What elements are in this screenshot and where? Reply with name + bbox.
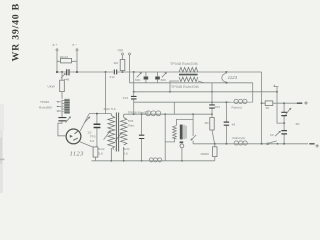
svg-text:Rohr 5,6: Rohr 5,6 bbox=[104, 107, 116, 111]
trimmer arrow 60C right bbox=[161, 72, 167, 82]
capacitor C3 grid bbox=[84, 113, 111, 147]
svg-text:+90: +90 bbox=[117, 49, 123, 53]
wire x193.1 drop bbox=[192, 114, 194, 136]
svg-text:1123: 1123 bbox=[70, 151, 85, 158]
svg-text:e −: e − bbox=[73, 43, 78, 47]
inductor L1 adjustable core bbox=[56, 99, 70, 114]
wire UKW column bbox=[61, 72, 63, 99]
node cap row right bbox=[76, 71, 78, 73]
transformer TR1 left winding bbox=[108, 114, 115, 161]
svg-text:60C: 60C bbox=[135, 78, 141, 82]
inductor L4 zigzag bottom bbox=[179, 77, 198, 82]
node rail F x261.6 bbox=[261, 143, 263, 145]
mixer coil zigzag bbox=[173, 126, 177, 139]
wire rail B bbox=[130, 82, 253, 84]
wire TR1 right top to cap column bbox=[124, 113, 141, 115]
jack stub above rail C bbox=[274, 85, 279, 92]
node rail C x212 bbox=[211, 91, 213, 93]
wire grid drop from rail A bbox=[105, 72, 107, 114]
node rail A x62 bbox=[61, 71, 63, 73]
node rail F x284.1 bbox=[283, 143, 285, 145]
terminal +90 left bbox=[117, 49, 124, 60]
svg-text:≠13: ≠13 bbox=[123, 96, 128, 100]
svg-text:60C: 60C bbox=[161, 78, 167, 82]
terminal +90 right bbox=[129, 53, 131, 55]
wire tube left lead bbox=[58, 121, 66, 136]
wire L1 to C2 bbox=[61, 113, 63, 118]
inductor L3 zigzag top bbox=[179, 67, 198, 72]
trimmer arrow 60C left bbox=[135, 72, 142, 82]
plus sign rail D bbox=[304, 101, 308, 105]
svg-text:5,6: 5,6 bbox=[98, 152, 103, 156]
svg-text:Rohr(s)U: Rohr(s)U bbox=[233, 136, 246, 140]
svg-text:1123: 1123 bbox=[228, 75, 238, 80]
wire rail y114.2 with choke L5 bbox=[140, 113, 212, 115]
resistor R4 60 bbox=[265, 101, 273, 110]
resistor R6 1M bbox=[204, 114, 214, 144]
node rail A x124 bbox=[122, 71, 124, 73]
column C5 cap (03) bbox=[209, 83, 220, 114]
node C6 bottom bbox=[283, 122, 285, 124]
mixer coil top wire bbox=[176, 119, 193, 125]
rail D end dash bbox=[297, 102, 303, 104]
wire x174.3 short vertical bbox=[173, 102, 175, 114]
node rail D x284.1 bbox=[283, 102, 285, 104]
wire rail A bbox=[77, 71, 262, 73]
node rail E x182 bbox=[181, 160, 183, 162]
svg-text:5,6: 5,6 bbox=[90, 139, 95, 143]
wire bypass left bbox=[277, 92, 284, 123]
capacitor C8 (13) bbox=[123, 72, 137, 102]
mixer coil right winding bbox=[184, 125, 186, 139]
wire L4 left drop bbox=[170, 81, 179, 92]
wire tube anode diagonal bbox=[80, 142, 94, 147]
svg-text:WR 39/40 B: WR 39/40 B bbox=[10, 3, 21, 62]
svg-text:1M: 1M bbox=[204, 121, 209, 125]
node rail C x133.7 bbox=[133, 91, 135, 93]
svg-text:TP040: TP040 bbox=[40, 100, 49, 104]
diode arrow bbox=[191, 135, 197, 144]
svg-text:TP3: TP3 bbox=[90, 135, 96, 139]
node rail E x141.6 bbox=[141, 160, 143, 162]
svg-text:1,2: 1,2 bbox=[113, 147, 118, 151]
svg-text:Rohr: Rohr bbox=[98, 147, 105, 151]
svg-text:Rohr20M: Rohr20M bbox=[39, 106, 52, 110]
terminal a+ bbox=[53, 43, 59, 59]
wire right vertical to cap row bbox=[76, 61, 78, 72]
node choke rail x226.4 bbox=[225, 101, 227, 103]
capacitor pad right dark bbox=[155, 72, 160, 83]
capacitor C9 (5) bbox=[224, 102, 236, 144]
capacitor pad left dark bbox=[144, 72, 149, 83]
svg-text:1M: 1M bbox=[114, 61, 119, 65]
node rail y114.2 x165.2 bbox=[164, 113, 166, 115]
capacitor C1 (48) bbox=[57, 69, 77, 81]
capacitor C12 series in rail A bbox=[110, 70, 118, 80]
choke L2 on rail E bbox=[149, 158, 162, 162]
wire R3 bottom bbox=[122, 71, 124, 73]
wire cap column x133.7 lower bbox=[133, 102, 135, 114]
wire rail C bbox=[134, 91, 277, 93]
mixer knob stem bbox=[181, 148, 183, 161]
wire choke rail y102.2 bbox=[134, 101, 231, 103]
tube filament U23 bbox=[222, 73, 238, 82]
node column x212 rail y114.2 bbox=[211, 113, 213, 115]
node rail F x213 bbox=[214, 143, 216, 145]
capacitor C4 bbox=[139, 114, 144, 161]
mixer coil core dark bbox=[180, 125, 183, 140]
node filament bottom bbox=[225, 82, 227, 84]
wire rail E bottom left bbox=[92, 160, 215, 162]
mixer core bottom bar bbox=[180, 141, 184, 143]
choke L6 bbox=[231, 99, 253, 109]
svg-text:UKW: UKW bbox=[48, 85, 55, 89]
arrow across TR1 right winding bbox=[115, 132, 122, 141]
wire left vertical to cap row bbox=[56, 61, 58, 72]
node cap row left bbox=[56, 71, 58, 73]
node V1 rail D bbox=[261, 102, 263, 104]
resistor R2 bbox=[93, 147, 98, 161]
node rail F x226.4 bbox=[225, 143, 227, 145]
terminal e- bbox=[73, 43, 79, 59]
svg-text:3Ω: 3Ω bbox=[295, 122, 300, 126]
svg-text:≠48: ≠48 bbox=[64, 77, 69, 81]
core bar L3/L4 bbox=[179, 74, 198, 76]
svg-text:TP048 Rohr20M: TP048 Rohr20M bbox=[171, 85, 199, 89]
resistor UKW bbox=[48, 80, 65, 91]
svg-text:≠5: ≠5 bbox=[232, 122, 236, 126]
wire V1 from rail A bbox=[261, 72, 263, 144]
plus sign rail F bbox=[315, 144, 318, 147]
scan edge artifact left bbox=[0, 130, 3, 193]
svg-text:a +: a + bbox=[53, 43, 58, 47]
tube V1 triode bbox=[66, 129, 81, 144]
node rail E x111 bbox=[110, 160, 112, 162]
svg-text:18x12: 18x12 bbox=[60, 55, 69, 59]
resistor R1 18x12 bbox=[60, 55, 72, 63]
node rail A x226.4 bbox=[225, 71, 227, 73]
svg-text:15000: 15000 bbox=[200, 152, 209, 156]
transformer TR1 core bbox=[116, 113, 118, 152]
node rail C x170 bbox=[169, 91, 171, 93]
mixer knob circle bbox=[180, 144, 184, 148]
transformer TR1 right winding bbox=[120, 114, 126, 161]
rail F end dash bbox=[309, 143, 314, 145]
svg-text:TP048 Rohr20M: TP048 Rohr20M bbox=[170, 62, 198, 66]
capacitor C2 bbox=[58, 116, 71, 122]
resistor R3 1M bbox=[114, 60, 125, 71]
wire R1 leads bbox=[57, 60, 77, 62]
svg-text:Rohr: Rohr bbox=[123, 147, 130, 151]
svg-text:≠03: ≠03 bbox=[215, 105, 220, 109]
wire tube grid diagonal bbox=[80, 114, 89, 131]
node rail A x133.7 bbox=[133, 71, 135, 73]
node rail E x123.7 bbox=[123, 160, 125, 162]
svg-text:≠0: ≠0 bbox=[270, 133, 274, 137]
node rail C x277 bbox=[276, 91, 278, 93]
mixer coil left drop bbox=[165, 114, 174, 161]
svg-text:≠12: ≠12 bbox=[110, 75, 115, 79]
svg-text:5,6: 5,6 bbox=[123, 152, 128, 156]
svg-text:Rohr: Rohr bbox=[128, 123, 135, 127]
wire V2 from rail B bbox=[252, 83, 254, 102]
node rail y114.2 x193.1 bbox=[192, 113, 194, 115]
switch on rail F bbox=[267, 141, 279, 145]
svg-text:Rohr(s): Rohr(s) bbox=[232, 105, 242, 109]
node rail y114.2 x133.7 bbox=[133, 113, 135, 115]
capacitor C7 trimmer bbox=[270, 123, 287, 144]
node rail y114.2 x141.6 bbox=[141, 113, 143, 115]
svg-text:60: 60 bbox=[266, 106, 270, 110]
node choke rail x212 bbox=[211, 101, 213, 103]
svg-text:TP3: TP3 bbox=[128, 119, 134, 123]
wire rail E to R7 joint bbox=[212, 160, 214, 162]
node rail A x105.5 bbox=[105, 71, 107, 73]
capacitor C6 variable bbox=[281, 103, 291, 123]
choke L7 bbox=[233, 136, 248, 145]
arrow across TR1 left winding bbox=[104, 130, 111, 140]
wire rail D bbox=[262, 102, 297, 104]
resistor R7 15000 bbox=[200, 144, 217, 161]
wire rail F bottom right bbox=[193, 143, 308, 145]
